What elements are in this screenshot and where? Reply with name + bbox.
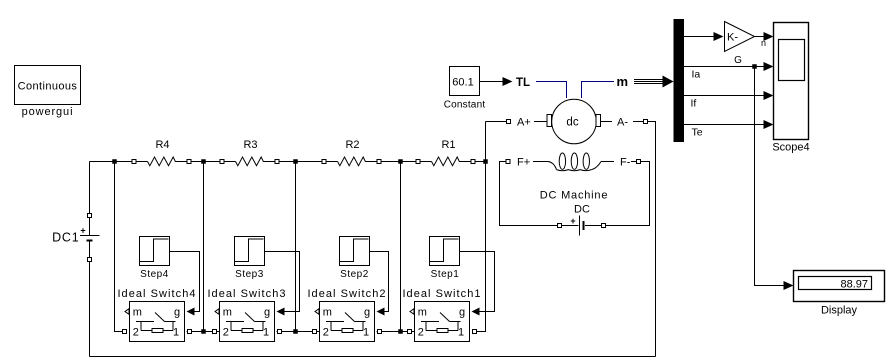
wire right ladder drop (R1 to A+ and Ideal Switch1 port 1) [477,122,507,332]
wire ladder drop R3/R2 [295,162,297,332]
gain G (K-) [725,22,755,67]
svg-text:2: 2 [418,327,424,339]
step source Step4 [140,237,170,281]
wire Step4 to Ideal Switch4 gate [170,252,200,312]
wire F- (field return) [606,157,650,226]
svg-text:R1: R1 [441,139,455,151]
svg-text:60.1: 60.1 [452,77,473,89]
svg-text:2: 2 [323,327,329,339]
wire switch row segments [187,331,415,333]
display Display (88.97) [794,271,885,317]
wire mux out 3 (If) to Scope4 input 3 [684,95,764,97]
svg-text:Ideal Switch4: Ideal Switch4 [117,288,196,300]
svg-text:1: 1 [363,327,369,339]
wire mux out 4 (Te) to Scope4 input 4 [684,124,764,126]
node junction at (400.5,161.5) [398,159,403,164]
svg-text:1: 1 [458,327,464,339]
wire Step1 to Ideal Switch1 gate [460,252,495,312]
svg-text:1: 1 [173,327,179,339]
svg-text:powergui: powergui [22,106,74,118]
wire F+ (field) [500,157,558,226]
svg-text:dc: dc [566,117,578,129]
svg-text:R3: R3 [243,139,257,151]
mux bus selector [674,19,685,142]
switch Ideal Switch1 [402,288,481,342]
svg-text:g: g [459,307,465,319]
node junction at (203.5,161.5) [201,159,206,164]
switch Ideal Switch3 [207,288,286,342]
svg-text:2: 2 [133,327,139,339]
wire ladder drop R4/R3 [203,162,205,332]
node junction at (295.5,331.5) [293,329,298,334]
wire mux out 2 (Ia) to Scope4 input 2 [684,66,764,68]
svg-text:g: g [174,307,180,319]
node junction at (754.5,66.5) [752,64,757,69]
svg-text:If: If [691,98,697,110]
node junction at (295.5,161.5) [293,159,298,164]
wire ladder drop R2/R1 [400,162,402,332]
svg-text:m: m [323,307,332,319]
svg-text:2: 2 [223,327,229,339]
svg-text:Te: Te [692,127,703,139]
svg-text:R2: R2 [345,139,359,151]
scope Scope4 [772,23,809,154]
wire Step3 to Ideal Switch3 gate [265,252,300,312]
resistor R4 [132,139,191,166]
wire bottom rail (DC1- to A- vertical) [90,356,656,358]
wire A+ into machine [507,117,547,129]
svg-text:TL: TL [516,77,530,89]
svg-text:A-: A- [617,117,628,129]
svg-text:R4: R4 [155,139,169,151]
DC voltage source DC1 [52,162,99,357]
svg-text:Ideal Switch3: Ideal Switch3 [207,288,286,300]
svg-text:Step2: Step2 [340,269,369,280]
node junction at (400.5,331.5) [398,329,403,334]
node junction at (203.5,331.5) [201,329,206,334]
wire m vector to mux [634,80,664,84]
wire Ia to Display [755,67,784,286]
constant block Constant (60.1) [444,67,486,111]
svg-text:Ia: Ia [692,69,701,81]
node junction at (114.5,161.5) [112,159,117,164]
svg-text:g: g [264,307,270,319]
wire TL (signal into machine, navy) [536,82,567,99]
wire Step2 to Ideal Switch2 gate [370,252,389,312]
powergui block U_powergui [15,66,81,119]
DC machine U_DCMachine [540,99,609,201]
svg-text:DC Machine: DC Machine [540,190,609,202]
step source Step3 [235,237,265,281]
svg-text:Constant: Constant [444,100,486,111]
inductor field coil [548,153,614,171]
svg-text:m: m [133,307,142,319]
svg-text:K-: K- [727,32,738,44]
svg-text:n: n [761,38,766,48]
switch Ideal Switch2 [307,288,386,342]
resistor R1 [416,139,475,166]
svg-text:Step3: Step3 [235,269,264,280]
svg-text:+: + [80,226,85,236]
svg-text:DC: DC [574,204,590,216]
svg-text:+: + [570,216,575,226]
svg-text:Step4: Step4 [140,269,169,280]
svg-text:g: g [364,307,370,319]
svg-text:Ideal Switch1: Ideal Switch1 [402,288,481,300]
svg-text:F+: F+ [517,157,530,169]
switch Ideal Switch4 [117,288,196,342]
wire m (machine output, navy) [582,82,615,99]
wire mux out 1 to gain [684,36,714,38]
wire gain to Scope4 input 1 [755,36,765,38]
svg-text:Display: Display [821,305,858,317]
DC voltage source DC (field supply battery) [558,204,606,236]
svg-text:m: m [418,307,427,319]
resistor R2 [322,139,381,166]
resistor R3 [220,139,279,166]
step source Step2 [340,237,370,281]
svg-text:m: m [617,74,629,89]
svg-text:G: G [734,55,742,66]
svg-text:88.97: 88.97 [840,279,868,291]
svg-text:A+: A+ [517,117,531,129]
wire Constant to TL port [480,81,504,83]
svg-text:Continuous: Continuous [18,81,78,93]
step source Step1 [430,237,460,281]
svg-text:Scope4: Scope4 [772,142,809,154]
svg-text:Step1: Step1 [431,269,460,280]
svg-text:1: 1 [263,327,269,339]
node junction at (485.5,161.5) [483,159,488,164]
svg-text:Ideal Switch2: Ideal Switch2 [307,288,386,300]
svg-text:DC1: DC1 [52,231,79,245]
wire top rail (DC1+ to A+ corner) [90,161,486,163]
svg-text:F-: F- [620,157,631,169]
svg-text:m: m [223,307,232,319]
wire A- out of machine [601,117,656,357]
wire left ladder drop (top rail to Ideal Switch4 port 2) [115,162,123,332]
